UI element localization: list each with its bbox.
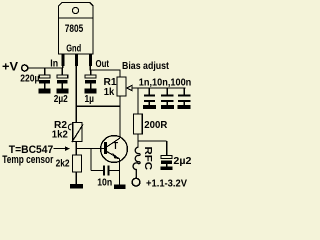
- capacitor C4 top plate: [144, 95, 155, 97]
- wire 2k2 to ground: [75, 172, 77, 184]
- capacitor C3 1u bottom plate: [85, 80, 96, 84]
- capacitor C2 2u2 bottom plate: [57, 80, 68, 84]
- capacitor C1 220u lead: [44, 68, 46, 75]
- capacitor C2 2u2 top plate: [57, 75, 68, 78]
- svg-text:2k2: 2k2: [56, 158, 70, 170]
- capacitor C3 lead to ground: [90, 84, 92, 89]
- svg-text:7805: 7805: [65, 23, 84, 35]
- capacitor C7 bottom plate: [161, 160, 172, 164]
- transistor Q1 base bar: [104, 142, 107, 154]
- wire base junction to transistor base: [76, 148, 104, 150]
- ground bar under emitter: [114, 185, 126, 189]
- R1 wiper arrow: [127, 85, 132, 91]
- svg-text:220µ: 220µ: [20, 73, 39, 85]
- ground bar under 2k2: [70, 184, 83, 188]
- wire RFC node to output cap: [138, 140, 167, 142]
- resistor R4 2k2 body: [73, 155, 82, 172]
- regulator U1 mounting hole: [72, 7, 78, 13]
- resistor R3 200R body: [134, 114, 143, 134]
- transistor Q1 collector stroke: [107, 138, 120, 147]
- capacitor C8 10n right plate: [108, 166, 110, 176]
- svg-text:RFC: RFC: [142, 147, 153, 171]
- output terminal circle: [132, 178, 140, 186]
- svg-text:1µ: 1µ: [85, 93, 95, 105]
- capacitor C5 bottom plate: [161, 100, 173, 102]
- capacitor C5 top plate: [161, 95, 173, 97]
- transistor Q1 circle: [101, 136, 128, 163]
- capacitor C4 bottom plate: [144, 100, 155, 102]
- capacitor C3 1u top plate: [85, 75, 96, 78]
- svg-text:T: T: [113, 141, 118, 152]
- wire gnd node to R1 bottom: [76, 105, 120, 107]
- capacitor C2 2u2 lead: [61, 68, 63, 75]
- U1 pin 2 Gnd leg: [75, 54, 78, 66]
- capacitor C7 lead to ground: [166, 164, 168, 166]
- capacitor C2 lead to ground: [61, 84, 63, 89]
- U1 pin 1 In leg: [62, 54, 65, 66]
- wire base node down to 10n cap: [90, 149, 92, 171]
- U1 pin 3 Out leg: [89, 54, 92, 66]
- ground bar under C7: [160, 166, 172, 170]
- capacitor C6 100n lead: [183, 88, 185, 95]
- potentiometer R1 body: [117, 77, 126, 96]
- svg-text:1k: 1k: [104, 86, 115, 98]
- svg-text:1k2: 1k2: [52, 128, 68, 140]
- transistor Q1 emitter stroke: [107, 152, 120, 159]
- capacitor C6 top plate: [178, 95, 190, 97]
- svg-text:Gnd: Gnd: [66, 42, 81, 54]
- wire R2 to 2k2 junction: [75, 142, 77, 156]
- svg-text:Temp censor: Temp censor: [2, 154, 54, 166]
- regulator U1 7805 package outline: [59, 3, 94, 55]
- capacitor C7 top plate: [161, 156, 172, 159]
- svg-text:200R: 200R: [144, 119, 167, 131]
- capacitor C4 lead to ground: [148, 102, 150, 105]
- ground bar under C3: [85, 89, 97, 94]
- capacitor C7 2u2 output lead: [166, 141, 168, 156]
- capacitor C1 lead to ground: [44, 84, 46, 89]
- R2 diagonal top hook: [68, 124, 71, 130]
- inductor RFC coil: [133, 147, 140, 178]
- wire 7805 Gnd pin down to R2: [75, 66, 77, 123]
- wire Out pin to R1: [90, 70, 120, 78]
- wire 10n right plate to emitter: [110, 170, 120, 172]
- R2 adjustment diagonal: [72, 125, 83, 143]
- regulator U1 tab separator line: [59, 17, 94, 19]
- svg-text:+V: +V: [2, 60, 18, 74]
- capacitor C5 10n lead: [166, 88, 168, 95]
- capacitor C1 220u bottom plate: [39, 80, 50, 84]
- capacitor C6 lead to ground: [183, 102, 185, 105]
- ground bar under C5: [161, 105, 174, 109]
- svg-text:+1.1-3.2V: +1.1-3.2V: [146, 178, 187, 189]
- input terminal circle: [22, 65, 28, 71]
- capacitor C8 10n left plate: [103, 166, 105, 176]
- svg-text:10n: 10n: [97, 176, 112, 188]
- ground bar under C6: [178, 105, 191, 109]
- wire to 10n left plate: [91, 170, 103, 172]
- svg-text:2µ2: 2µ2: [54, 93, 68, 105]
- svg-text:Out: Out: [96, 58, 110, 70]
- wire emitter to ground: [119, 159, 121, 185]
- capacitor C6 bottom plate: [178, 100, 190, 102]
- svg-text:Bias adjust: Bias adjust: [122, 60, 169, 72]
- annotation arrow to base wire: [54, 148, 66, 150]
- svg-text:1n,10n,100n: 1n,10n,100n: [139, 76, 192, 88]
- wire 200R bottom to RFC node: [137, 134, 139, 147]
- ground bar under C2: [56, 89, 68, 94]
- capacitor C1 220u top plate: [39, 75, 50, 78]
- ground bar under C4: [143, 105, 156, 109]
- wire R1 bottom to collector: [119, 96, 121, 138]
- resistor R2 1k2 body: [73, 123, 82, 142]
- capacitor C5 lead to ground: [166, 102, 168, 105]
- svg-text:2µ2: 2µ2: [173, 155, 191, 167]
- transistor Q1 emitter arrowhead: [112, 153, 119, 159]
- capacitor C4 1n lead: [148, 88, 150, 95]
- wire wiper bus: [132, 87, 185, 89]
- wire bus to 200R: [137, 88, 139, 114]
- wire +V rail to In pin: [28, 67, 63, 69]
- ground bar under C1: [39, 89, 51, 94]
- capacitor C3 1u lead: [90, 70, 92, 75]
